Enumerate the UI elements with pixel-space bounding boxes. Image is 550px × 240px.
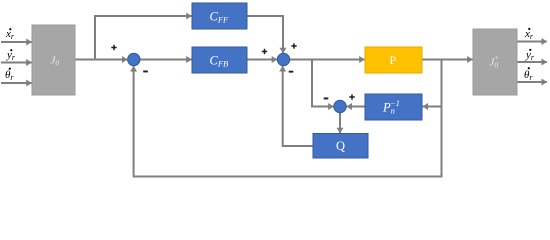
wire: branch up to CFF [95, 16, 192, 60]
block CFF [192, 3, 247, 29]
wire: CFB out to S2 [247, 59, 277, 61]
block Q filter [313, 134, 368, 159]
svg-text:θr: θr [524, 69, 533, 82]
svg-text:θr: θr [5, 69, 14, 82]
block P plant [365, 47, 422, 73]
wire: S2 to P [290, 59, 365, 61]
sign plus top at S2 [291, 43, 296, 48]
wire: input arrow 3 into J0 [1, 82, 32, 84]
wire: y-branch down the right side [134, 60, 442, 177]
svg-text:yr: yr [525, 49, 535, 62]
wire: branch down from u-node to S3 [312, 60, 334, 107]
wire: S3 down into Q [339, 113, 341, 134]
wire: output arrow 2 [517, 61, 547, 63]
sign minus bottom at S2 [289, 71, 294, 73]
block J0plus [473, 29, 517, 95]
wire: input arrow 2 into J0 [1, 62, 32, 64]
wire: Q out left and up into S2 [283, 66, 313, 146]
sign plus right at S3 [349, 94, 354, 99]
sign plus left at S2 [262, 49, 267, 54]
summing junction S2 [277, 53, 289, 65]
sign minus at S1 [143, 71, 148, 73]
sign minus left at S3 [324, 98, 329, 100]
wire: input arrow 1 into J0 [1, 41, 32, 43]
svg-text:Q: Q [336, 139, 345, 153]
svg-text:P: P [390, 53, 397, 67]
wire: output arrow 3 [517, 81, 547, 83]
wire: Pn inverse out to S3 [347, 106, 365, 108]
sign plus at S1 [111, 45, 116, 50]
wire: output arrow 1 [517, 41, 547, 43]
block Pn inverse [365, 94, 422, 120]
summing junction S1 [128, 53, 140, 65]
wire: y-branch into Pn inverse [423, 106, 442, 108]
wire: CFF out then down into S2 [247, 16, 283, 53]
block CFB [192, 47, 247, 73]
svg-text:xr: xr [524, 28, 534, 41]
summing junction S3 [334, 100, 346, 112]
wire: P out to J0plus [422, 59, 473, 61]
wire: S1 to CFB [140, 59, 192, 61]
wire: J0 output to summing junction S1 [75, 59, 127, 61]
block J0 [32, 25, 75, 95]
